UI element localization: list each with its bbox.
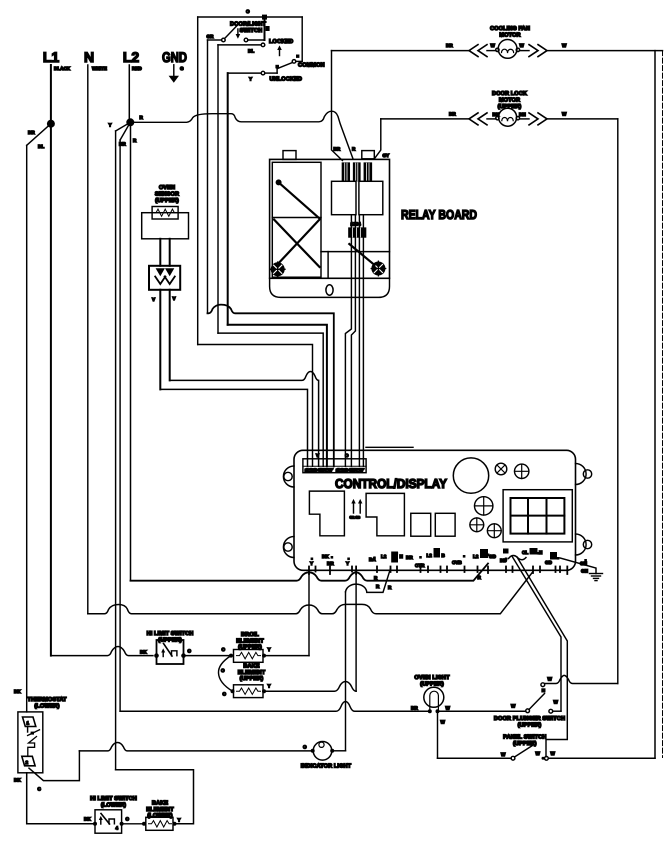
broil element label [236, 632, 264, 651]
svg-text:BL: BL [38, 144, 44, 149]
svg-text:Y: Y [346, 561, 349, 566]
svg-text:O: O [221, 668, 225, 673]
svg-text:O: O [303, 745, 307, 750]
svg-text:B: B [442, 553, 446, 558]
svg-text:(UPPER): (UPPER) [420, 681, 444, 688]
svg-text:GR: GR [207, 34, 215, 39]
wire bake lower return [116, 770, 194, 824]
wire thermostat to C [14, 751, 79, 792]
control board right ear top [576, 464, 592, 485]
node junction dot on O line [262, 15, 267, 20]
node COMMON contact [275, 17, 324, 69]
svg-text:W: W [554, 700, 559, 705]
svg-text:G: G [180, 66, 184, 71]
svg-text:(LOWER): (LOWER) [147, 812, 172, 819]
svg-text:W: W [536, 751, 541, 756]
harness circled-X right [371, 261, 386, 276]
svg-text:BR: BR [334, 147, 341, 152]
wire relay output 2 [351, 215, 355, 466]
svg-text:BROIL: BROIL [241, 632, 259, 638]
svg-text:BK: BK [140, 650, 147, 655]
svg-text:BR: BR [411, 706, 418, 711]
svg-text:INDICATOR LIGHT: INDICATOR LIGHT [301, 764, 352, 770]
relay K1 on control board [309, 491, 344, 536]
wire GR horizontal to connector [208, 305, 334, 467]
svg-text:W: W [501, 752, 506, 757]
svg-text:L2: L2 [123, 49, 140, 65]
svg-text:UNLOCKED: UNLOCKED [270, 77, 303, 83]
svg-text:BLACK: BLACK [54, 66, 71, 71]
broil circuit line from L1 [51, 647, 153, 656]
svg-text:BR: BR [406, 555, 413, 560]
door/light switch label [230, 21, 267, 35]
relay section bottom line [321, 251, 390, 253]
wire relay output 1 [345, 215, 351, 466]
svg-text:BN: BN [519, 112, 526, 117]
svg-text:GD: GD [489, 554, 497, 559]
svg-text:ELEMENT: ELEMENT [238, 670, 266, 676]
wire sensor leads to connector [160, 239, 169, 266]
door lock motor circuit [381, 91, 618, 126]
svg-text:2: 2 [26, 760, 29, 765]
screw circle plus 2 [475, 497, 493, 515]
thermostat box [18, 712, 43, 773]
bake element lower label [146, 801, 174, 820]
svg-text:L2: L2 [381, 554, 387, 559]
harness X diagonals [274, 220, 320, 268]
wire vertical1 [345, 592, 347, 751]
svg-text:O: O [222, 647, 226, 652]
ground symbol at control board [560, 558, 603, 581]
wire riser Y2 pin to bake upper [355, 570, 357, 691]
svg-text:PANEL SWITCH: PANEL SWITCH [503, 735, 546, 741]
svg-text:O: O [126, 817, 130, 822]
oven sensor label [155, 185, 179, 204]
resistor broil element [234, 647, 271, 662]
relay board bottom extension [270, 278, 390, 297]
svg-text:OVEN: OVEN [159, 185, 175, 191]
wire line C to indicator with hop [79, 743, 311, 751]
wire sensor right to connector with hop [170, 372, 319, 467]
svg-text:V: V [173, 296, 177, 301]
svg-text:MOTOR: MOTOR [499, 33, 520, 39]
buzzer circle [453, 458, 488, 493]
node L2 heading [123, 49, 143, 71]
resistor oven sensor [152, 207, 178, 220]
svg-text:L1: L1 [43, 49, 60, 65]
svg-text:CTR: CTR [415, 563, 425, 568]
svg-text:RED: RED [132, 66, 142, 71]
wire top O line [198, 9, 303, 17]
wire Y horizontal to connector [228, 325, 327, 467]
wire relay output 3 [358, 215, 360, 466]
wire plunger top to door lock vertical [545, 675, 618, 683]
svg-text:(LOWER): (LOWER) [34, 703, 59, 710]
svg-text:R: R [352, 147, 356, 152]
wire line B oven light feed with hop [120, 702, 430, 712]
svg-text:HI LIMIT SWITCH: HI LIMIT SWITCH [90, 796, 137, 802]
svg-text:L2: L2 [473, 554, 479, 559]
svg-text:W: W [446, 706, 451, 711]
node N heading [84, 49, 107, 71]
svg-text:ELEMENT: ELEMENT [146, 807, 174, 813]
wire BL vertical to thermostat [26, 145, 28, 712]
wire L2 vertical [128, 65, 130, 122]
node GND heading with arrow [162, 49, 187, 83]
wire LOCKED line [218, 39, 293, 56]
cooling fan circuit [332, 26, 663, 58]
svg-text:WHITE: WHITE [92, 66, 107, 71]
relay 2 on relay board [359, 181, 383, 214]
relay board harness box [272, 162, 321, 277]
relay K3 small [411, 513, 431, 536]
svg-text:Y: Y [268, 684, 271, 689]
svg-text:Y: Y [310, 561, 313, 566]
relay board outline [270, 159, 390, 278]
svg-text:COMMON: COMMON [298, 63, 325, 69]
svg-text:W: W [548, 677, 553, 682]
svg-text:C: C [38, 787, 42, 792]
svg-text:V: V [316, 453, 320, 458]
svg-text:GND: GND [162, 49, 187, 65]
control board top lip [366, 446, 413, 448]
svg-text:W: W [551, 751, 556, 756]
wire L2 horizontal to relay board with hops [130, 111, 353, 159]
display outer box [503, 490, 572, 542]
svg-text:R: R [140, 115, 144, 120]
relay board top tab 1 [283, 151, 296, 160]
wire sensor left to connector [160, 389, 307, 466]
svg-text:(LOWER): (LOWER) [101, 802, 126, 809]
svg-text:BK: BK [14, 778, 21, 783]
control board left ear top [283, 466, 294, 487]
wire lamp W riser to panel line [437, 711, 439, 758]
screw circle X [495, 463, 507, 475]
wire GR vertical [207, 40, 209, 313]
svg-text:R: R [374, 576, 378, 581]
svg-text:DOOR LOCK: DOOR LOCK [492, 91, 527, 97]
relay K2 on control board [366, 493, 404, 535]
svg-text:GY: GY [383, 153, 390, 158]
svg-text:L2: L2 [427, 553, 433, 558]
hi limit switch upper box [140, 640, 192, 664]
wire relay output 4 [362, 215, 364, 466]
hi limit switch upper label [147, 631, 194, 644]
wire indicator to vertical1 [332, 750, 345, 752]
resistor bake element upper [231, 684, 271, 698]
wire O vertical [197, 17, 199, 345]
wire door lock right vertical [617, 119, 619, 684]
control board connector strip [303, 453, 366, 473]
svg-text:N: N [400, 554, 404, 559]
wire right margin vertical B [662, 51, 664, 758]
relay connector block 2 [354, 163, 360, 181]
svg-text:(UPPER): (UPPER) [240, 675, 264, 682]
relay board top tab 2 [362, 151, 375, 159]
wire vertical x=115.6 to lower bake return [115, 131, 117, 770]
svg-text:GN: GN [581, 569, 589, 574]
door plunger switch [494, 677, 565, 729]
node L2 junction dot [126, 118, 134, 126]
wire W diag 2 to panel switch [517, 557, 567, 757]
svg-text:1: 1 [27, 721, 30, 726]
wire right margin vertical A [654, 51, 656, 759]
svg-text:1234567: 1234567 [336, 467, 365, 472]
svg-text:O: O [223, 692, 227, 697]
oven sensor outer box [142, 213, 189, 239]
svg-text:BK: BK [84, 817, 91, 822]
svg-text:R: R [388, 585, 392, 590]
svg-text:(UPPER): (UPPER) [518, 722, 542, 729]
indicator light [301, 742, 352, 770]
svg-text:N: N [84, 49, 94, 65]
svg-text:BD: BD [500, 558, 507, 563]
svg-text:BAKE: BAKE [152, 801, 168, 807]
wire BL vertical from LOCKED [217, 45, 219, 333]
node L1 heading [43, 49, 71, 71]
svg-text:1234567: 1234567 [305, 467, 334, 472]
wire N vertical [87, 65, 89, 614]
svg-text:W: W [520, 43, 525, 48]
wire Y vertical from UNLOCKED [227, 73, 229, 325]
wire1 R from L2 to board [131, 564, 489, 581]
curve between element inputs [218, 656, 232, 697]
svg-text:BK: BK [322, 554, 329, 559]
resistor bake element lower [142, 817, 181, 830]
wire GY from door lock to relay [374, 119, 389, 159]
svg-text:R: R [133, 138, 137, 143]
svg-text:CL: CL [522, 550, 528, 555]
svg-text:R: R [478, 575, 482, 580]
svg-text:Y: Y [109, 123, 112, 128]
svg-text:CR CB: CR CB [350, 516, 361, 520]
svg-text:R: R [376, 584, 380, 589]
thermostat label [14, 689, 67, 710]
wire2 from vertical1 to L2N pin [346, 569, 393, 593]
svg-text:HI LIMIT SWITCH: HI LIMIT SWITCH [147, 631, 194, 637]
relay K4 small [435, 513, 455, 536]
wire riser Y1 pin to broil [308, 570, 310, 655]
control board left ear bottom [283, 537, 294, 558]
wire sensor V leads down [152, 290, 177, 390]
svg-text:OVEN LIGHT: OVEN LIGHT [414, 675, 450, 681]
svg-text:BL: BL [248, 49, 254, 54]
control board right ear bottom [576, 534, 592, 555]
wire L1 vertical [50, 65, 52, 656]
svg-text:BR: BR [449, 112, 456, 117]
svg-text:DOOR PLUNGER SWITCH: DOOR PLUNGER SWITCH [494, 716, 565, 722]
svg-text:COOLING FAN: COOLING FAN [490, 26, 530, 32]
control board bottom pin stubs [309, 567, 567, 575]
wire L2 branch Y [109, 122, 131, 131]
wire BR cooling fan to relay [332, 51, 357, 161]
svg-text:Y: Y [249, 77, 252, 82]
svg-text:CONTROL/DISPLAY: CONTROL/DISPLAY [335, 476, 447, 491]
wire line B continue to plunger [438, 710, 526, 712]
svg-text:BR: BR [28, 130, 35, 135]
svg-text:BAKE: BAKE [243, 664, 259, 670]
wire GR from switch [207, 34, 222, 40]
svg-text:W: W [562, 43, 567, 48]
svg-text:BR: BR [327, 561, 334, 566]
wire O horizontal to connector [218, 333, 323, 466]
connector oven sensor plug [149, 266, 180, 290]
harness dot and diagonal [276, 179, 320, 218]
svg-text:(UPPER): (UPPER) [155, 197, 179, 204]
svg-text:Y: Y [268, 647, 271, 652]
svg-text:W: W [441, 720, 446, 725]
bake element upper label [238, 664, 266, 683]
screw circle plus 4 [487, 524, 501, 538]
harness circled-X left [271, 262, 286, 277]
arrows CR CB [350, 499, 363, 520]
wire W diag 1 to plunger [513, 557, 562, 711]
oven light label [414, 675, 450, 688]
svg-text:O: O [188, 649, 192, 654]
control board pin labels [310, 548, 588, 568]
svg-text:N: N [539, 550, 543, 555]
svg-text:BK: BK [14, 689, 21, 694]
svg-text:W: W [491, 43, 496, 48]
relay section inner divider [327, 252, 329, 278]
connector 1234 block [349, 228, 366, 237]
hi limit switch lower label [90, 796, 137, 809]
node L1 junction dot [47, 120, 55, 128]
svg-text:Y: Y [178, 818, 181, 823]
relay connector block 1 [342, 163, 349, 181]
control board outline [294, 450, 576, 570]
wire switch to bake lower [122, 823, 144, 825]
wire switch right side riser [265, 17, 270, 40]
wire switch to broil element [184, 647, 233, 658]
svg-text:(UPPER): (UPPER) [513, 740, 537, 747]
svg-text:LOCKED: LOCKED [269, 39, 293, 45]
svg-text:O: O [345, 453, 349, 458]
svg-text:THERMOSTAT: THERMOSTAT [27, 697, 66, 703]
wire line A bake to Y2 riser with hop [264, 682, 356, 692]
relay connector block 3 [364, 163, 371, 181]
screw circle plus 3 [470, 518, 484, 532]
svg-text:SWITCH: SWITCH [240, 28, 263, 34]
svg-text:W: W [562, 112, 567, 117]
svg-text:4: 4 [116, 826, 119, 831]
squiggle wire near BD pin [509, 555, 527, 559]
display inner grid [511, 498, 565, 534]
svg-text:O: O [246, 9, 250, 14]
relay section diagonal [349, 244, 374, 265]
svg-text:CVB: CVB [452, 560, 462, 565]
svg-text:BR: BR [446, 43, 453, 48]
svg-text:V: V [152, 297, 156, 302]
svg-text:SENSOR: SENSOR [155, 192, 179, 198]
svg-text:RELAY BOARD: RELAY BOARD [401, 207, 477, 222]
panel switch [438, 735, 656, 761]
wire UNLOCKED line [228, 69, 302, 83]
door/light switch contacts and blade [222, 24, 265, 42]
wire BL horizontal to connector [198, 345, 313, 467]
wire L1 diagonal branch to BL [27, 124, 51, 149]
screw circle plus 1 [515, 464, 529, 478]
svg-text:MOTOR: MOTOR [499, 98, 520, 104]
wire broil to Y1 riser [264, 655, 309, 657]
svg-text:GD: GD [545, 560, 553, 565]
svg-text:W: W [511, 704, 516, 709]
hi limit switch lower box [84, 810, 130, 833]
wire vertical x=120.1 to oven light feed [119, 140, 121, 711]
harness divider [272, 217, 321, 219]
relay 1 on relay board [332, 181, 357, 214]
wire L2 branch BR [119, 122, 137, 146]
wire3 N to CLN pin [88, 572, 533, 614]
pin terminal squares [311, 552, 587, 562]
lamp oven light [411, 687, 451, 724]
wire thermostat down to lower switch [27, 773, 95, 824]
svg-text:BA: BA [369, 557, 376, 562]
relay board bottom ellipse [326, 285, 333, 295]
svg-text:ELEMENT: ELEMENT [236, 638, 264, 644]
